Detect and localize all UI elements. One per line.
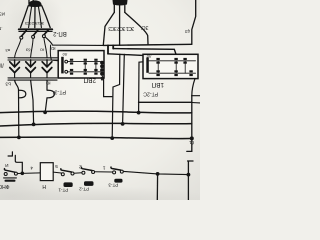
arrester 2 (double chevron arrow) (30, 60, 32, 67)
tube center line (119, 6, 121, 46)
svg-text:1ВП: 1ВП (151, 81, 164, 88)
S1 base bars (4, 177, 17, 179)
svg-text:РТ-2: РТ-2 (79, 187, 89, 192)
wire D dot down to plug hook top (187, 138, 192, 151)
tube neck right (124, 5, 126, 13)
svg-text:И: И (5, 163, 8, 168)
RT-2 contact circles (82, 171, 85, 174)
pin wire H2 to 1VP block (108, 54, 143, 56)
wire arrester3 down with coil bump to bus B (45, 80, 47, 112)
RT-2 pad (84, 181, 94, 186)
1VP block row2 line (149, 72, 196, 74)
2VP row1 line (68, 61, 101, 63)
tube cap (filled) (113, 0, 128, 6)
junction dot x157.6 (156, 172, 160, 176)
svg-text:1: 1 (103, 164, 106, 170)
1VP row1 contacts (156, 58, 186, 64)
coil bottom hook (101, 76, 103, 81)
RT-2 lever (81, 167, 92, 170)
wire box to RT-1 (53, 171, 61, 174)
svg-text:4: 4 (30, 164, 33, 170)
right vertical bus with plug bracket (192, 96, 200, 103)
coil bump 1 (19, 90, 26, 98)
socket bell left wall (21, 6, 29, 28)
switch lever 3 (44, 30, 48, 35)
tube pin 2 (112, 45, 114, 48)
socket interior wire left (29, 7, 32, 28)
switch S1 contact circles (4, 173, 7, 176)
1VP block box (143, 54, 198, 78)
svg-text:РТ-3: РТ-3 (55, 88, 66, 94)
svg-text:ИЗ: ИЗ (0, 11, 5, 16)
wire arrester2 down to bus C (31, 80, 34, 124)
svg-text:ЗС': ЗС' (141, 24, 149, 30)
RT-1 contact circles (61, 173, 64, 176)
wire V3 from H2 down with jog to bus D (112, 54, 120, 138)
junction dot on B at x45 (43, 110, 47, 114)
RT-1 pad (64, 182, 73, 187)
arrester 3 (double chevron arrow) (46, 60, 48, 67)
1VP row2 contacts (156, 70, 192, 76)
arrester top double line (8, 58, 57, 60)
svg-text:ФНОМ: ФНОМ (0, 183, 10, 189)
socket interior wire right (38, 7, 41, 28)
left plug hook B wire to junction (15, 155, 22, 171)
svg-text:ЛП: ЛП (0, 62, 4, 68)
svg-text:ло: ло (146, 54, 151, 59)
wire down from x157.6 to bottom (156, 174, 158, 200)
svg-text:РТ-2С: РТ-2С (143, 90, 158, 96)
wire from circle1 to arrester 1 (15, 39, 21, 58)
tube left flare (103, 12, 114, 45)
wire feed pair into socket cap (29, 0, 33, 4)
RT-1 lever (61, 169, 72, 172)
1VP bottom-right wire down to plug (192, 79, 195, 96)
junction dot at x22 (21, 172, 25, 176)
switch lever 1 (22, 31, 27, 37)
svg-text:ло: ло (62, 52, 67, 57)
bus line B (0, 111, 192, 113)
1VP block top second line (148, 47, 174, 49)
svg-text:вЗ: вЗ (5, 48, 10, 53)
2VP row2 circle (65, 70, 68, 73)
svg-text:2ВП: 2ВП (83, 76, 96, 83)
RT-3 lever (111, 167, 121, 170)
wire RT-2 to RT-3 (95, 171, 113, 173)
2VP block box (58, 51, 104, 78)
RT-3 contact circles (113, 171, 116, 174)
junction dot bottom right (187, 173, 191, 177)
1VP left contact column (146, 57, 149, 72)
2VP row1 contacts (70, 59, 98, 65)
arrester bottom double line (8, 78, 57, 80)
2VP row2 contacts (70, 69, 98, 75)
bus line A (short top) (139, 101, 192, 103)
junction dot on C at x122.6 (121, 122, 125, 126)
coil on right edge of 2VP box (100, 61, 104, 76)
svg-text:.Г: .Г (0, 26, 3, 31)
arrester 1 (double chevron arrow) (14, 60, 16, 67)
coil bump 3 (47, 90, 54, 98)
2VP row2 line (68, 71, 101, 73)
2VP bottom terminal wire down (104, 78, 112, 97)
svg-text:Н: Н (42, 183, 46, 189)
svg-text:ВП-2: ВП-2 (52, 30, 66, 36)
wire from circle2 to arrester 2 (31, 38, 33, 57)
svg-text:Ю: Ю (51, 46, 56, 51)
1VP inter-row links (158, 61, 185, 73)
left plug hook A (8, 152, 12, 156)
socket bell right wall (42, 6, 50, 28)
junction dot on B at x138.6 (137, 111, 141, 115)
tube right flare (125, 12, 148, 44)
wire W1 from switch area to tube bottom line (45, 37, 103, 45)
svg-text:ЬЗ: ЬЗ (5, 82, 11, 87)
svg-text:ЗС1 ЗС2 ЗС3: ЗС1 ЗС2 ЗС3 (25, 21, 44, 26)
wire RT-3 to right bottom (123, 171, 188, 174)
junction dot on C at x33.6 (32, 123, 36, 127)
wire S1 to fuse box (17, 172, 40, 175)
wire from circle3 to arrester 3 (44, 38, 47, 58)
socket interior wire center (34, 7, 36, 28)
tube bottom long line (103, 44, 192, 45)
bus line D (0, 137, 192, 139)
switch contact circle 2 (32, 35, 35, 38)
svg-text:5: 5 (55, 163, 58, 169)
svg-text:Ю: Ю (40, 47, 44, 52)
tube socket cap (filled) (28, 0, 41, 7)
pin wire H1 to 1VP block (113, 49, 176, 61)
switch contact circle 3 (42, 35, 45, 38)
svg-text:ϙЗ: ϙЗ (185, 29, 190, 34)
top-right feed wire (192, 0, 196, 44)
socket base bar (19, 28, 52, 30)
wire from 1VP left terminal down to bus B (139, 62, 143, 113)
2VP left contact column (61, 57, 64, 74)
bus line C (0, 123, 192, 126)
svg-text:РТ-3: РТ-3 (108, 183, 118, 188)
svg-text:ЗС1 ЗС2 ЗС3: ЗС1 ЗС2 ЗС3 (108, 25, 134, 31)
tube neck left (113, 5, 115, 13)
wire RT-1 to RT-2 (74, 172, 82, 175)
switch lever 2 (33, 30, 38, 35)
plug hook bottom (188, 161, 193, 200)
junction dot on D at x112 (110, 136, 114, 140)
svg-text:РТ-1: РТ-1 (58, 187, 68, 192)
junction dot on D at x19 (17, 136, 21, 140)
junction dot on D right (190, 136, 194, 140)
1VP block row1 line (149, 60, 196, 62)
right vertical down to D (191, 96, 193, 139)
2VP inter-row links (85, 62, 96, 72)
drop wire from W1 into 2VP block row1 (50, 45, 64, 61)
svg-text:бЗ: бЗ (25, 47, 30, 52)
switch S1 lever (4, 169, 14, 173)
RT-3 pad (114, 179, 122, 183)
switch contact circle 1 (20, 36, 23, 39)
wire arrester1 down with coil bump to bus D (15, 80, 19, 137)
fuse box (40, 163, 53, 181)
tube pin 1 (107, 45, 109, 53)
svg-text:Ю: Ю (46, 81, 51, 86)
wire from H2 down to bus C (123, 54, 125, 124)
2VP row1 circle (65, 60, 68, 63)
